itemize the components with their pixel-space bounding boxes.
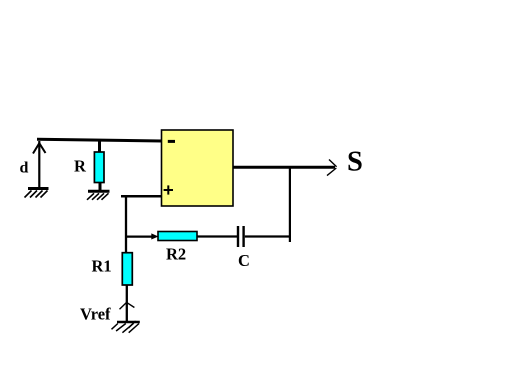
op-amp - input marker — [168, 140, 175, 143]
wire output horizontal — [233, 166, 335, 169]
wire bottom left segment — [126, 236, 153, 238]
svg-text:S: S — [347, 147, 363, 178]
wire stub below resistor R — [99, 183, 102, 192]
output arrowhead — [327, 160, 337, 176]
ground (R) — [87, 191, 110, 200]
ground (d) — [25, 189, 49, 198]
wire + input horizontal — [121, 195, 162, 198]
capacitor C plates — [238, 226, 244, 247]
wire below R1 to Vref ground — [126, 285, 128, 322]
svg-text:R1: R1 — [92, 256, 112, 275]
op-amp + input marker — [164, 185, 173, 194]
arrow into R2 — [151, 233, 158, 239]
svg-text:d: d — [20, 160, 29, 177]
resistor R1 — [122, 253, 132, 285]
svg-text:C: C — [238, 251, 250, 270]
wire vertical left (+ input down to R1) — [125, 195, 127, 253]
source d arrowhead — [33, 143, 46, 153]
wire R2 to C — [197, 235, 237, 237]
ground (Vref) — [112, 321, 140, 333]
wire C to feedback corner — [245, 235, 291, 237]
svg-text:R: R — [74, 157, 87, 176]
resistor R — [94, 152, 104, 183]
wire stub above resistor R — [98, 141, 101, 153]
wire top horizontal (to - input) — [37, 139, 162, 141]
Vref arrowhead chevron — [120, 302, 135, 309]
svg-text:R2: R2 — [166, 244, 186, 263]
op-amp U1 body — [162, 130, 234, 206]
wire vertical feedback from output — [289, 167, 291, 243]
svg-text:Vref: Vref — [80, 305, 111, 324]
resistor R2 — [158, 232, 197, 241]
source d vertical wire — [38, 141, 40, 189]
